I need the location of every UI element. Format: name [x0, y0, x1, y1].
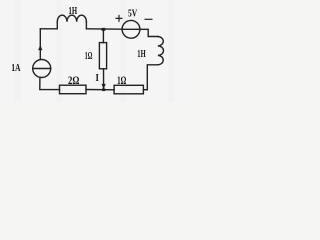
svg-text:1H: 1H: [69, 5, 78, 17]
resistor R1 1 ohm (middle) box: [99, 43, 106, 69]
wire left branch upper: [39, 29, 41, 60]
wire top-left horizontal: [40, 28, 57, 30]
svg-text:2Ω: 2Ω: [68, 73, 80, 87]
wire bottom between resistors: [86, 89, 114, 91]
arrowhead of current I (down): [102, 84, 106, 90]
wire through voltage source: [122, 28, 140, 30]
wire top-right to corner: [140, 29, 158, 36]
arrowhead of current source 1A (up): [38, 45, 42, 51]
minus sign of voltage source: [145, 18, 153, 20]
junction dot top: [102, 28, 106, 31]
inductor L1 1H (top) risers: [57, 22, 86, 29]
current source I1 diameter bar: [33, 68, 51, 70]
svg-text:1H: 1H: [137, 48, 146, 60]
svg-text:5V: 5V: [128, 8, 137, 20]
plus sign of voltage source: [116, 15, 123, 22]
resistor R2 2 ohm box: [60, 85, 87, 94]
wire top middle: [86, 28, 122, 30]
resistor R3 1 ohm (bottom) box: [114, 85, 143, 94]
wire middle branch top stub: [102, 29, 104, 42]
wire bottom-left: [40, 78, 60, 90]
voltage source V1 circle: [122, 20, 140, 38]
current source I1 circle: [33, 60, 51, 78]
svg-text:1A: 1A: [11, 62, 20, 74]
inductor L2 1H (right) arcs: [158, 37, 164, 65]
svg-text:1Ω: 1Ω: [117, 75, 126, 87]
wire middle branch bottom stub: [103, 69, 105, 90]
svg-text:I: I: [96, 72, 99, 84]
svg-text:1Ω: 1Ω: [85, 50, 93, 62]
wire bottom-right: [143, 89, 147, 91]
junction dot bottom: [102, 89, 105, 92]
wire right branch lower: [147, 65, 158, 90]
inductor L1 1H (top) arcs: [57, 15, 86, 21]
